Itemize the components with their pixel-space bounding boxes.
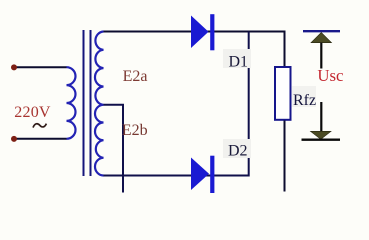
svg-text:D1: D1 bbox=[229, 54, 249, 71]
svg-text:Rfz: Rfz bbox=[293, 92, 316, 109]
svg-text:E2a: E2a bbox=[123, 68, 148, 85]
svg-text:220V: 220V bbox=[14, 104, 51, 121]
svg-text:E2b: E2b bbox=[122, 122, 148, 139]
svg-text:Usc: Usc bbox=[317, 66, 343, 85]
svg-text:D2: D2 bbox=[228, 143, 248, 160]
